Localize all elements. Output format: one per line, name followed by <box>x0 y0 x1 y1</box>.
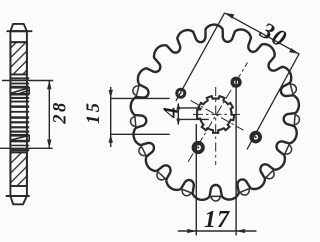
centerline diag AB <box>191 100 244 130</box>
dim 17 arrow left (right side) <box>236 229 245 233</box>
dim 28 extension line bottom <box>0 147 53 149</box>
dim 28 arrow up <box>47 81 51 90</box>
dim 30 extension line through hole B <box>247 54 299 150</box>
dim 4 arrow up <box>176 103 180 110</box>
dim 4 arrow down <box>176 119 180 126</box>
hole C <box>194 143 203 152</box>
sprocket outline (17 teeth) <box>131 25 299 200</box>
tooth tip cap bottom <box>10 196 27 204</box>
hole D <box>232 78 240 86</box>
dim 17 extension line right <box>235 77 237 236</box>
dim 15 dimension line <box>110 87 112 147</box>
chain rollers in tooth gaps <box>290 84 296 93</box>
spline hub hatch boxes <box>10 88 29 141</box>
dim 17 arrow right (left side) <box>187 229 196 233</box>
centerline diag CD <box>188 63 248 163</box>
svg-text:28: 28 <box>50 100 70 125</box>
dim 30 arrow right <box>289 48 299 54</box>
hole A <box>177 89 185 97</box>
dim 28 arrow down <box>47 140 51 149</box>
dim 28 extension line top <box>2 80 53 82</box>
dim 28 dimension line <box>48 81 50 149</box>
upper plate hatched section <box>10 42 27 74</box>
dim 15 arrow up (below) <box>109 134 113 143</box>
dim 30 arrow left <box>225 13 235 19</box>
dim 15 extension line top <box>111 97 170 99</box>
tooth root line bottom <box>6 195 30 197</box>
spline hub serration bands <box>10 77 29 151</box>
svg-text:17: 17 <box>204 207 230 233</box>
dim 15 extension line bottom <box>111 133 170 135</box>
dim 4 dimension line <box>177 104 179 125</box>
tooth tip cap top <box>10 24 27 31</box>
dim 30 dimension line <box>225 13 299 54</box>
dim 30 extension line through hole A <box>176 13 225 101</box>
dim 17 dimension line <box>178 230 257 232</box>
centerline vertical <box>215 87 217 165</box>
splined bore <box>197 96 234 133</box>
dim 4 extension line bottom <box>178 118 209 120</box>
svg-text:4: 4 <box>159 107 183 119</box>
tooth face band line top <box>10 41 27 43</box>
dim 17 extension line left <box>195 124 197 236</box>
dim 15 arrow down (above) <box>109 90 113 99</box>
tooth root line top <box>7 30 33 32</box>
hole B <box>251 133 260 142</box>
body outline <box>10 31 27 196</box>
centerline horizontal <box>193 113 243 115</box>
svg-text:15: 15 <box>84 101 104 125</box>
lower plate hatched section <box>10 152 27 186</box>
tooth face band line bottom <box>10 185 27 187</box>
dim 4 extension line top <box>178 107 197 109</box>
